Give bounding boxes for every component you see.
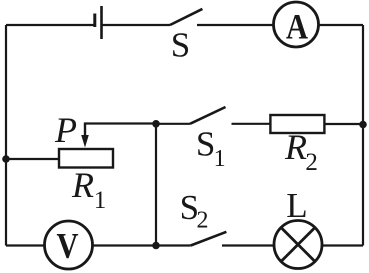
wire ammeter to top-right corner: [319, 24, 364, 26]
label S2: [180, 188, 209, 234]
svg-text:V: V: [57, 226, 79, 266]
svg-text:1: 1: [94, 187, 107, 214]
ammeter A: [274, 2, 319, 47]
svg-text:2: 2: [197, 208, 209, 234]
switch S2: [191, 232, 274, 246]
svg-text:1: 1: [214, 146, 226, 172]
resistor R2: [270, 115, 324, 133]
label P: [54, 110, 77, 150]
svg-text:R: R: [71, 165, 94, 205]
switch S1: [190, 107, 270, 124]
rheostat R1: [59, 149, 113, 168]
svg-text:S: S: [171, 26, 190, 65]
lamp L: [274, 221, 322, 269]
wire middle vertical: [155, 124, 157, 246]
svg-text:S: S: [196, 125, 215, 164]
wire left vertical: [5, 25, 7, 246]
voltmeter V: [45, 221, 93, 269]
battery cell: [95, 6, 102, 39]
label R2: [284, 127, 318, 176]
wire node to switch S2: [156, 244, 191, 246]
node junction bottom: [152, 242, 160, 250]
svg-text:P: P: [54, 110, 77, 150]
svg-text:A: A: [286, 7, 308, 47]
wire top-left from corner to battery: [6, 24, 94, 26]
label R1: [71, 165, 106, 214]
wire voltmeter to bottom node: [93, 244, 157, 246]
wire node to switch S1: [156, 123, 190, 125]
wiper arrow P of R1: [81, 124, 89, 148]
wire R2 to right vertical: [324, 123, 363, 125]
switch S: [170, 9, 274, 25]
node junction left (to R1): [2, 155, 10, 163]
wire right vertical: [362, 25, 364, 246]
wire battery to switch S: [103, 24, 171, 26]
node junction middle-top: [152, 120, 160, 128]
wire lamp to bottom-right corner: [322, 244, 363, 246]
svg-text:2: 2: [305, 149, 318, 176]
wire left node to R1: [6, 158, 59, 160]
wire wiper to middle node: [84, 122, 156, 124]
wire bottom-left corner to voltmeter: [6, 244, 45, 246]
label S: [171, 26, 190, 65]
label L: [286, 186, 307, 225]
svg-text:R: R: [284, 127, 307, 167]
svg-text:L: L: [286, 186, 307, 225]
node junction right: [359, 121, 367, 129]
label S1: [196, 125, 226, 173]
